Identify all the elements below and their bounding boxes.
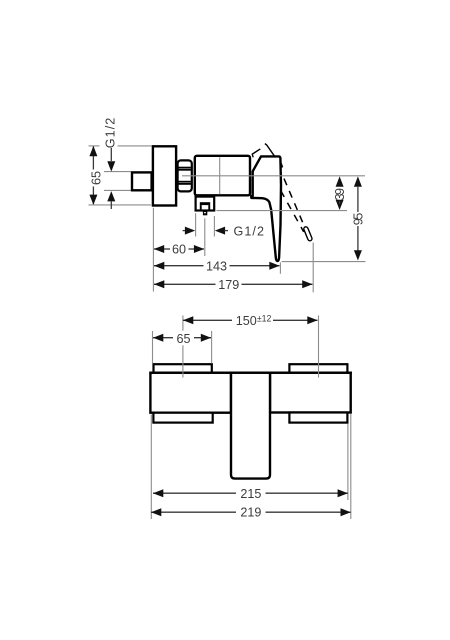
dashed tip extension (179) <box>312 243 314 293</box>
dimension 65 (front) <box>153 334 211 342</box>
G1/2 wall nipple <box>132 172 152 190</box>
dimension 219 <box>151 508 351 516</box>
extension lines bottom <box>150 415 152 520</box>
dimension 143 <box>154 262 280 270</box>
svg-text:65: 65 <box>176 332 190 346</box>
handle (solid, closed position) <box>251 156 281 261</box>
right escutcheon <box>270 373 351 413</box>
svg-text:219: 219 <box>240 506 261 520</box>
escutcheon (wall plate) side view <box>153 146 176 205</box>
outlet nub <box>203 211 207 215</box>
extension lines for 150 (pass through caps) <box>182 316 184 331</box>
svg-text:60: 60 <box>172 243 186 257</box>
extension lines below top view <box>153 208 365 292</box>
handle heel marks (alternate position, thin) <box>252 149 260 157</box>
svg-text:G1/2: G1/2 <box>234 224 265 238</box>
centre line of body (thin, over shapes) <box>182 175 365 177</box>
top edge across <box>151 372 352 374</box>
outlet left extension <box>195 213 197 236</box>
left main extension (escutcheon left) <box>152 208 154 292</box>
outlet right extension <box>213 216 215 237</box>
svg-text:39: 39 <box>333 188 347 201</box>
central handle bar <box>231 373 270 479</box>
dimension 65 (vertical, escutcheon height) <box>92 147 94 170</box>
mixer body <box>195 156 250 196</box>
dimension 150±12 <box>183 316 318 324</box>
escutcheon top caps <box>154 364 212 373</box>
dimension 215 <box>153 489 348 497</box>
extension lines for 65 <box>152 331 154 363</box>
handle bottom extension (95) <box>282 261 366 263</box>
extension line: nipple bottom <box>104 189 131 191</box>
union nut <box>178 160 192 191</box>
dimension 39 (vertical) <box>336 176 344 210</box>
extension line: escutcheon bottom <box>89 204 152 206</box>
body internal vertical line <box>219 157 221 194</box>
svg-text:143: 143 <box>206 259 227 273</box>
svg-text:215: 215 <box>240 487 261 501</box>
extension line: nipple top <box>104 171 131 173</box>
dimension 179 <box>154 280 313 288</box>
outlet bottom extension (39) <box>217 210 348 212</box>
svg-text:65: 65 <box>90 171 104 185</box>
outlet (shower hose connector) below body <box>196 197 215 211</box>
outlet centre extension <box>204 218 206 256</box>
extension line: escutcheon top (right of G1/2 text) <box>118 145 152 147</box>
left escutcheon <box>150 373 231 413</box>
svg-text:95: 95 <box>352 213 366 226</box>
extension line: escutcheon top (left of G1/2 text) <box>89 145 100 147</box>
dimension G1/2 (vertical, nipple) <box>110 148 112 161</box>
escutcheon bottom caps <box>153 413 212 423</box>
dimension 60 <box>154 245 204 253</box>
dashed handle tip cap <box>306 229 310 239</box>
handle tip extension (143) <box>279 262 281 274</box>
dashed handle (open position, two tapering edges) <box>281 164 282 168</box>
svg-text:179: 179 <box>218 278 239 292</box>
svg-text:G1/2: G1/2 <box>103 118 117 149</box>
dimension G1/2 (outlet) <box>183 227 228 235</box>
dimension 95 (vertical) <box>354 176 362 260</box>
